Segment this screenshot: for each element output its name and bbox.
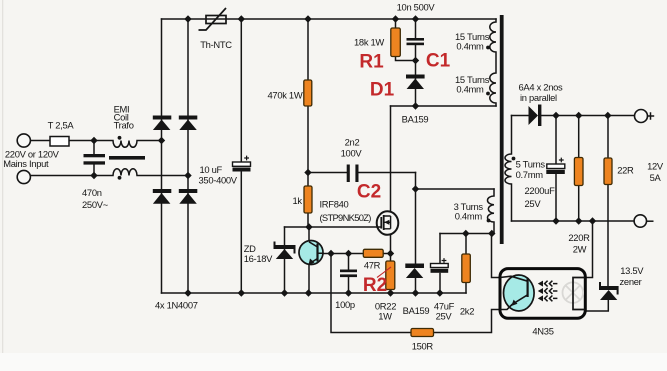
svg-text:25V: 25V <box>525 198 542 209</box>
svg-text:0.4mm: 0.4mm <box>456 41 484 52</box>
svg-text:4N35: 4N35 <box>532 326 553 337</box>
svg-text:12V: 12V <box>647 160 664 171</box>
svg-text:470n: 470n <box>82 187 102 198</box>
svg-text:C1: C1 <box>426 51 451 72</box>
svg-text:16-18V: 16-18V <box>244 253 273 264</box>
svg-text:R1: R1 <box>359 52 384 73</box>
svg-text:5A: 5A <box>650 172 662 183</box>
svg-text:5 Turns: 5 Turns <box>516 158 546 169</box>
svg-text:BA159: BA159 <box>402 113 429 124</box>
svg-text:250V~: 250V~ <box>82 199 109 210</box>
svg-text:Mains Input: Mains Input <box>3 158 49 169</box>
svg-text:zener: zener <box>620 276 642 287</box>
svg-text:47R: 47R <box>364 259 381 270</box>
svg-text:470k 1W: 470k 1W <box>268 89 303 100</box>
svg-text:R2: R2 <box>363 275 387 296</box>
svg-text:4x 1N4007: 4x 1N4007 <box>155 299 198 310</box>
svg-text:D1: D1 <box>370 80 395 101</box>
svg-text:100V: 100V <box>341 147 363 158</box>
svg-text:IRF840: IRF840 <box>320 198 349 209</box>
svg-text:Th-NTC: Th-NTC <box>200 39 232 50</box>
svg-text:0.4mm: 0.4mm <box>455 210 483 221</box>
svg-text:10 uF: 10 uF <box>200 164 223 175</box>
svg-text:25V: 25V <box>436 310 453 321</box>
svg-text:Trafo: Trafo <box>114 120 134 131</box>
svg-text:22R: 22R <box>617 165 634 176</box>
svg-text:2200uF: 2200uF <box>525 185 556 196</box>
svg-text:1k: 1k <box>293 195 303 206</box>
svg-text:2k2: 2k2 <box>460 305 474 316</box>
svg-text:in parallel: in parallel <box>520 92 557 103</box>
svg-text:1W: 1W <box>378 310 392 321</box>
svg-text:18k 1W: 18k 1W <box>354 36 384 47</box>
svg-text:220R: 220R <box>568 232 590 243</box>
svg-text:2W: 2W <box>573 243 587 254</box>
svg-text:150R: 150R <box>412 340 434 351</box>
svg-text:0.7mm: 0.7mm <box>516 169 544 180</box>
svg-text:T 2,5A: T 2,5A <box>48 120 75 131</box>
svg-text:(STP9NK50Z): (STP9NK50Z) <box>320 212 372 223</box>
svg-text:BA159: BA159 <box>403 305 430 316</box>
svg-text:13.5V: 13.5V <box>620 265 644 276</box>
svg-text:C2: C2 <box>357 182 381 203</box>
svg-text:10n 500V: 10n 500V <box>397 1 436 12</box>
svg-text:100p: 100p <box>335 299 355 310</box>
svg-text:2n2: 2n2 <box>345 136 360 147</box>
svg-text:0.4mm: 0.4mm <box>456 84 484 95</box>
svg-text:350-400V: 350-400V <box>199 174 238 185</box>
